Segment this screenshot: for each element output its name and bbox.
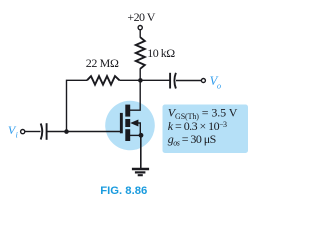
ground	[132, 168, 149, 171]
resistor RG 22 MΩ	[87, 76, 120, 85]
node source junction dot	[139, 133, 144, 138]
wire C2 to Vo terminal	[176, 80, 202, 82]
mosfet Q1 drain lead	[130, 80, 140, 110]
wire RD to drain node	[139, 69, 141, 81]
resistor RD 10 kΩ	[136, 37, 145, 69]
mosfet Q1 channel top segment	[125, 105, 130, 117]
node drain junction dot	[138, 78, 143, 83]
wire drain node left to RG	[120, 79, 141, 81]
svg-text:10 kΩ: 10 kΩ	[147, 46, 175, 60]
mosfet Q1 substrate arrow	[130, 120, 138, 127]
capacitor C2 curved plate	[174, 73, 176, 89]
mosfet Q1 channel middle segment	[125, 119, 130, 127]
terminal Vo circle	[201, 79, 205, 83]
mosfet highlight circle	[105, 101, 155, 151]
capacitor C2 flat plate	[169, 73, 171, 89]
supply terminal circle	[138, 26, 142, 30]
svg-text:FIG. 8.86: FIG. 8.86	[100, 185, 147, 197]
wire source to ground	[140, 135, 142, 168]
mosfet Q1 channel bottom segment	[125, 129, 130, 141]
mosfet Q1 substrate lead	[138, 123, 140, 135]
mosfet Q1 source lead	[130, 134, 141, 136]
svg-text:o: o	[217, 80, 221, 90]
capacitor C1 flat plate	[46, 123, 48, 140]
wire Vi to C1	[25, 131, 41, 133]
wire drain node to C2	[140, 79, 169, 81]
mosfet Q1 gate bar	[120, 113, 123, 133]
capacitor C1 curved plate	[41, 124, 43, 140]
node gate junction dot	[64, 129, 69, 134]
terminal Vi circle	[21, 130, 25, 134]
wire RG left to corner and down to gate node	[67, 80, 88, 131]
info box	[163, 105, 249, 154]
svg-text:i: i	[16, 129, 19, 139]
svg-text:22 MΩ: 22 MΩ	[86, 56, 119, 70]
svg-text:+20 V: +20 V	[127, 10, 155, 24]
wire C1 to gate node and on to gate	[48, 131, 121, 133]
wire supply to RD	[139, 30, 141, 38]
